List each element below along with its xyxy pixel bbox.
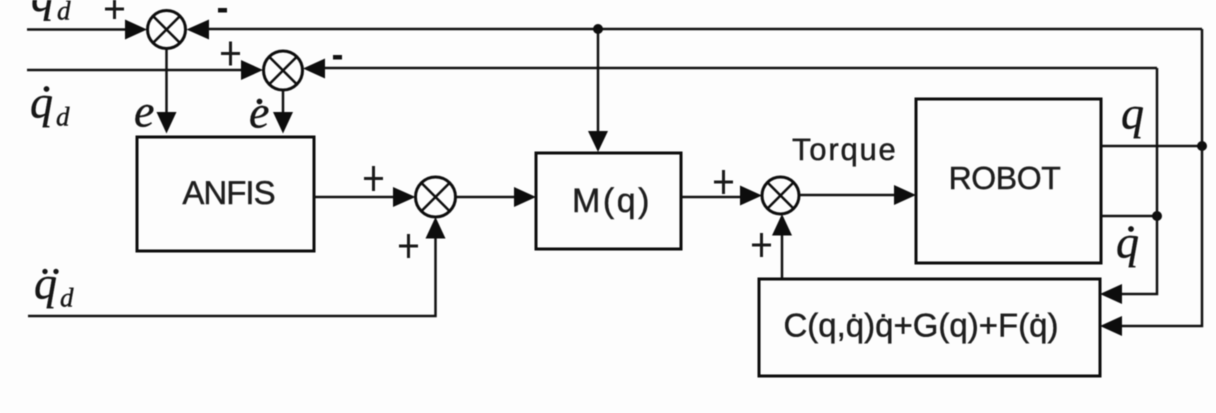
- block C(q,qdot)qdot+G(q)+F(qdot): [759, 279, 1100, 376]
- block ANFIS: [137, 137, 314, 251]
- label qdot output: [1116, 217, 1139, 268]
- arrowhead into C right upper: [1100, 284, 1122, 304]
- arrowhead into S3 left: [393, 187, 416, 207]
- wire ANFIS output: [314, 196, 399, 199]
- wire S4 to ROBOT: [799, 194, 900, 197]
- wire e drop from S1: [165, 49, 168, 117]
- wire M(q) output: [681, 196, 746, 199]
- arrowhead into S4 left: [740, 186, 762, 206]
- wire drop to M(q): [597, 29, 600, 136]
- wire S3 to M(q): [456, 196, 521, 199]
- svg-text:d: d: [57, 0, 71, 26]
- arrowhead into C right lower: [1100, 316, 1122, 336]
- arrowhead into S2 left: [241, 60, 263, 80]
- plus sign at S1 left input: [105, 0, 124, 19]
- plus sign at S3 left input: [364, 166, 383, 191]
- node junction q to outer line: [1197, 141, 1207, 151]
- minus sign at S1 right input: [218, 8, 227, 13]
- arrowhead edot into ANFIS: [273, 112, 293, 134]
- arrowhead into ROBOT left: [894, 185, 916, 205]
- wire qdot output: [1101, 215, 1157, 218]
- wire q_d input: [27, 28, 130, 31]
- svg-text:d: d: [56, 102, 70, 132]
- wire q output: [1101, 145, 1202, 148]
- arrowhead into S3 bottom: [426, 217, 446, 239]
- svg-text:q: q: [30, 77, 53, 128]
- svg-text:e: e: [134, 86, 154, 137]
- summing junction S3: [416, 177, 456, 217]
- node junction qdot to inner line: [1152, 211, 1162, 221]
- label edot: [249, 87, 269, 138]
- label qdot_d: [30, 77, 70, 132]
- plus sign at S2 left input: [221, 42, 240, 66]
- plus sign at S4 bottom input: [752, 233, 771, 257]
- block ROBOT: [916, 99, 1101, 263]
- wire edot drop from S2: [282, 90, 285, 115]
- wire qdot feedback: [324, 67, 1157, 70]
- node junction above M(q): [593, 24, 603, 34]
- arrowhead e into ANFIS: [157, 112, 177, 134]
- label qddot_d: [34, 258, 74, 313]
- wire C block to S4: [781, 230, 784, 279]
- arrowhead into S1 left: [125, 20, 147, 40]
- arrowhead into S2 right: [303, 59, 325, 79]
- svg-text:M(q): M(q): [572, 182, 652, 220]
- wire inner feedback vertical: [1115, 68, 1157, 294]
- minus sign at S2 right input: [333, 55, 342, 60]
- plus sign at S3 bottom input: [399, 234, 418, 258]
- summing junction S2: [264, 51, 303, 90]
- svg-text:Torque: Torque: [792, 132, 898, 167]
- svg-text:q: q: [31, 0, 54, 21]
- arrowhead into M(q) left: [514, 187, 536, 207]
- arrowhead into M(q) top: [588, 131, 608, 152]
- label q_d: [31, 0, 71, 26]
- svg-text:e: e: [249, 87, 269, 138]
- svg-text:q: q: [34, 258, 57, 309]
- svg-text:C(q,q̇)q̇+G(q)+F(q̇): C(q,q̇)q̇+G(q)+F(q̇): [783, 307, 1058, 344]
- wire qdot_d input: [27, 69, 246, 72]
- svg-text:d: d: [60, 283, 74, 313]
- wire q feedback top: [208, 28, 1202, 31]
- svg-text:q: q: [1121, 88, 1144, 139]
- arrowhead into S1 right: [187, 20, 210, 40]
- wire qddot_d input: [28, 233, 436, 316]
- svg-text:ROBOT: ROBOT: [949, 160, 1061, 196]
- summing junction S1: [148, 11, 186, 49]
- svg-text:ANFIS: ANFIS: [182, 174, 274, 211]
- summing junction S4: [762, 177, 799, 214]
- block M(q): [536, 153, 681, 249]
- plus sign at S4 left input: [714, 170, 733, 194]
- arrowhead into S4 bottom: [772, 214, 792, 236]
- svg-text:q: q: [1116, 217, 1139, 268]
- wire outer feedback vertical: [1115, 29, 1202, 326]
